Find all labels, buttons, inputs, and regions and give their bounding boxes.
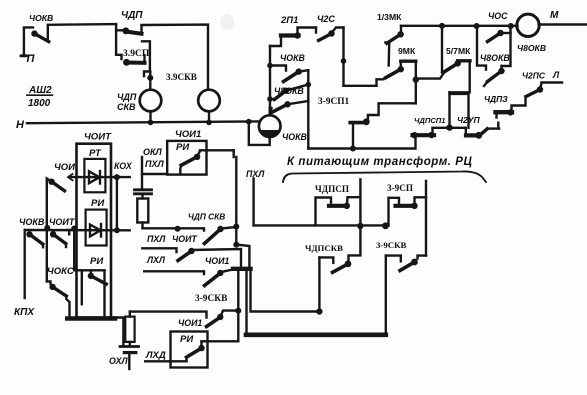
- wire row2 ЛХЛ: [142, 248, 176, 252]
- svg-text:3-9СКВ: 3-9СКВ: [376, 240, 406, 250]
- svg-text:П: П: [27, 53, 36, 65]
- contact 5/7МК: [442, 26, 470, 73]
- node ЧДП junction: [116, 24, 125, 30]
- svg-text:ЧОКВ: ЧОКВ: [282, 132, 307, 142]
- svg-text:1/3МК: 1/3МК: [377, 12, 402, 22]
- svg-text:3-9СП1: 3-9СП1: [318, 97, 350, 107]
- contact Ч2УП: [466, 123, 499, 139]
- contact ЧДП СКВ: [205, 226, 237, 244]
- node left bus ЧОКВ column: [269, 46, 271, 115]
- svg-text:ЧОКВ: ЧОКВ: [280, 53, 305, 63]
- wire v2 to ЧДПСКВ fixed: [251, 269, 323, 315]
- contact ЧОИ1 (row3): [205, 270, 234, 286]
- wire v1 to РИ bottom: [202, 269, 239, 341]
- svg-text:ПХЛ: ПХЛ: [145, 159, 164, 169]
- box РИ (bottom): [171, 332, 208, 368]
- wire to 3.9СКВ relay branch: [142, 25, 209, 90]
- svg-text:3-9СП: 3-9СП: [387, 183, 413, 193]
- svg-text:9МК: 9МК: [398, 46, 416, 56]
- svg-text:СКВ: СКВ: [117, 102, 136, 112]
- smudge artifact: [220, 14, 234, 30]
- svg-text:ОХЛ: ОХЛ: [109, 356, 128, 366]
- svg-text:5/7МК: 5/7МК: [446, 46, 471, 56]
- svg-text:ЛХД: ЛХД: [145, 350, 166, 361]
- svg-text:ЧДП: ЧДП: [121, 10, 143, 21]
- wire top right: [401, 23, 518, 29]
- box РИ (middle): [167, 141, 206, 175]
- contact ЧДПЗ: [496, 109, 514, 117]
- svg-text:ЧДП СКВ: ЧДП СКВ: [188, 212, 225, 222]
- capacitor (bottom ОХЛ): [120, 347, 139, 370]
- wire 5/7МК feed: [416, 72, 445, 79]
- contact ЧОС: [477, 26, 511, 70]
- svg-text:ЛХЛ: ЛХЛ: [146, 255, 166, 265]
- contact Ч2С: [316, 28, 344, 41]
- svg-text:Ч2ПС: Ч2ПС: [522, 71, 546, 81]
- contact ЧДПСКВ: [319, 226, 360, 312]
- contact ЧОИ: [47, 179, 65, 282]
- svg-text:Ч8ОКВ: Ч8ОКВ: [517, 43, 546, 53]
- resistor (bottom): [125, 312, 134, 346]
- contact ЧОКС: [47, 281, 70, 317]
- svg-text:Ч2УП: Ч2УП: [457, 115, 481, 125]
- box РТ diode: [84, 159, 105, 192]
- svg-text:АШ2: АШ2: [28, 85, 52, 96]
- wire ПХЛ stub down: [252, 179, 254, 226]
- node bus y225: [254, 223, 389, 229]
- contact РИ (middle box): [180, 150, 233, 172]
- svg-text:Л: Л: [552, 70, 560, 80]
- svg-text:РИ: РИ: [176, 142, 189, 153]
- wire 5/7МК down: [450, 61, 470, 128]
- contact 2П1: [270, 28, 316, 47]
- wire 9МК down / staircase to 3-9СП1: [368, 61, 419, 119]
- wire РТ row: [68, 174, 130, 230]
- svg-text:КПХ: КПХ: [14, 307, 35, 318]
- wire rail x308: [307, 70, 309, 148]
- contact 3.9СП: [123, 55, 144, 65]
- svg-text:ПХЛ: ПХЛ: [147, 234, 166, 244]
- svg-text:Н: Н: [16, 119, 25, 131]
- svg-text:К питающим трансформ. РЦ: К питающим трансформ. РЦ: [287, 156, 472, 168]
- svg-text:ЧОКС: ЧОКС: [47, 266, 74, 277]
- svg-text:ПХЛ: ПХЛ: [246, 169, 265, 179]
- svg-text:ЧДП: ЧДП: [117, 92, 137, 102]
- svg-text:3-9СКВ: 3-9СКВ: [195, 294, 227, 304]
- relay ЧОКВ polarized (coil): [246, 108, 281, 145]
- capacitor (left): [135, 190, 152, 199]
- svg-text:ЧДПСКВ: ЧДПСКВ: [305, 243, 343, 253]
- contact ЧОКВ (column c1): [267, 63, 308, 82]
- contact ЧОКВ (column c3): [271, 101, 309, 113]
- svg-text:ЧОИ1: ЧОИ1: [205, 256, 229, 266]
- wire РИ row: [25, 225, 130, 233]
- wire y85 to 9МК: [344, 79, 384, 86]
- svg-text:Ч2С: Ч2С: [317, 14, 335, 24]
- contact ЧОКВ (top-left П switch): [21, 25, 49, 56]
- wire v3 to thick bottom: [245, 269, 247, 335]
- svg-text:ЧОИТ: ЧОИТ: [172, 234, 197, 244]
- svg-text:Ч8ОКВ: Ч8ОКВ: [480, 53, 510, 63]
- node bar junction: [233, 267, 251, 271]
- svg-text:1800: 1800: [28, 98, 51, 109]
- svg-text:РИ: РИ: [180, 334, 193, 345]
- svg-text:ЧДПСП1: ЧДПСП1: [414, 116, 446, 125]
- svg-text:ЧОИ: ЧОИ: [54, 162, 75, 173]
- svg-text:ЧОКВ: ЧОКВ: [19, 217, 45, 227]
- wire row y311 left: [130, 312, 207, 318]
- svg-text:КОХ: КОХ: [114, 161, 133, 171]
- wire ЛХД stub: [145, 360, 186, 362]
- svg-text:ЧОИ1: ЧОИ1: [178, 318, 202, 328]
- svg-text:ЧОИ1: ЧОИ1: [175, 129, 201, 140]
- svg-text:РИ: РИ: [90, 256, 103, 267]
- wire relay bottoms to Н bus: [148, 111, 212, 125]
- wire 3.9СП branch: [116, 30, 121, 59]
- wire vertical x236: [233, 150, 249, 269]
- contact 3-9СП: [382, 181, 426, 256]
- contact 9МК: [386, 61, 416, 78]
- svg-text:ЧДПСП: ЧДПСП: [315, 184, 349, 194]
- contact ЧДПСП1: [411, 124, 466, 138]
- svg-text:РИ: РИ: [91, 198, 104, 209]
- contact Ч8ОКВ (column c2): [267, 82, 311, 102]
- brace under label: [283, 171, 486, 182]
- contact Ч8ОКВ (under ЧОС): [484, 66, 505, 86]
- svg-text:ОКЛ: ОКЛ: [143, 147, 163, 157]
- box ЧОИТ (tall): [77, 144, 112, 318]
- contact ЧДП: [122, 26, 141, 35]
- contact ЧОИ1 (bottom): [207, 308, 242, 327]
- svg-text:2П1: 2П1: [280, 15, 298, 26]
- svg-text:ЧДПЗ: ЧДПЗ: [484, 94, 508, 104]
- contact Ч2ПС: [512, 83, 563, 113]
- relay 3.9СКВ (coil): [198, 90, 220, 112]
- svg-text:М: М: [550, 10, 559, 21]
- contact ЧОИТ (left col): [50, 230, 69, 247]
- contact 3-9СП1: [350, 118, 369, 148]
- label АШ2/1800: [27, 85, 53, 109]
- contact 1/3МК: [385, 26, 403, 66]
- svg-text:Ч8ОКВ: Ч8ОКВ: [274, 86, 304, 96]
- box РИ diode: [86, 210, 107, 246]
- svg-text:3.9СКВ: 3.9СКВ: [166, 72, 197, 82]
- contact 3-9СКВ: [386, 256, 426, 335]
- wire y148 to ЧДПСП1: [308, 135, 415, 152]
- node Н bus: [27, 121, 259, 123]
- wire box bottom exit: [67, 316, 115, 321]
- contact ЧОИТ (row2): [178, 248, 241, 269]
- contact ЧДПСП: [316, 179, 361, 226]
- wire thick bottom: [246, 332, 386, 337]
- svg-text:ЧОКВ: ЧОКВ: [29, 13, 53, 23]
- contact ЧОКВ (left col): [25, 230, 43, 298]
- wire top-left: [48, 23, 116, 26]
- wire Ч2С down: [341, 28, 347, 86]
- relay Ч8ОКВ (М coil): [517, 14, 586, 36]
- svg-text:ЧОС: ЧОС: [488, 11, 508, 21]
- contact РИ (left col): [74, 229, 106, 318]
- svg-text:3.9СП: 3.9СП: [123, 48, 150, 59]
- resistor (left): [137, 199, 148, 229]
- wire box to capacitor: [142, 157, 167, 190]
- wire row1 ПХЛ-ЧОИТ: [143, 226, 205, 232]
- svg-text:ЧОИТ: ЧОИТ: [49, 217, 76, 227]
- svg-text:РТ: РТ: [89, 148, 102, 159]
- wire row3 ЛХЛ: [144, 271, 204, 274]
- wire right of 3.9СП: [142, 41, 153, 89]
- relay ЧДП СКВ (coil): [140, 90, 162, 112]
- svg-text:ЧОИТ: ЧОИТ: [84, 132, 112, 143]
- contact РИ (bottom box): [187, 341, 205, 361]
